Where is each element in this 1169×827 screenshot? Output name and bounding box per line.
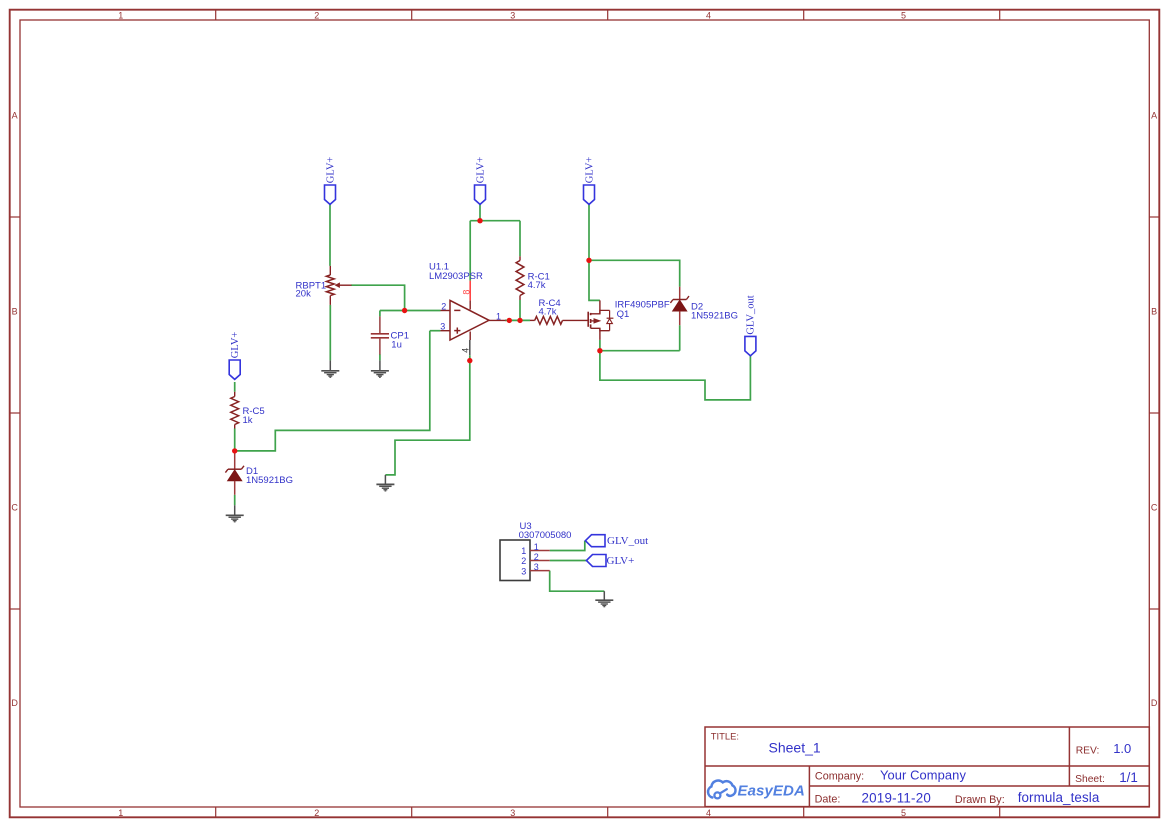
svg-text:1: 1: [521, 546, 526, 556]
svg-text:4: 4: [706, 11, 711, 21]
svg-text:1.0: 1.0: [1113, 741, 1131, 756]
svg-text:GLV_out: GLV_out: [607, 535, 648, 547]
svg-text:4.7k: 4.7k: [539, 307, 557, 318]
svg-text:3: 3: [521, 566, 526, 576]
svg-text:Sheet_1: Sheet_1: [769, 740, 821, 756]
svg-text:3: 3: [510, 808, 515, 818]
svg-text:Date:: Date:: [815, 794, 841, 806]
svg-text:D: D: [1151, 698, 1158, 708]
svg-text:5: 5: [901, 11, 906, 21]
svg-text:2: 2: [314, 11, 319, 21]
svg-text:1: 1: [534, 542, 539, 552]
svg-text:1/1: 1/1: [1119, 770, 1138, 785]
svg-text:2: 2: [314, 808, 319, 818]
svg-text:REV:: REV:: [1076, 746, 1100, 757]
svg-text:GLV+: GLV+: [230, 332, 241, 359]
svg-text:GLV+: GLV+: [475, 157, 486, 184]
svg-text:A: A: [12, 110, 18, 120]
svg-text:2: 2: [534, 552, 539, 562]
svg-text:1N5921BG: 1N5921BG: [691, 310, 738, 321]
svg-text:Your Company: Your Company: [880, 767, 966, 782]
svg-text:3: 3: [534, 562, 539, 572]
svg-text:Company:: Company:: [815, 770, 864, 782]
svg-text:C: C: [1151, 502, 1158, 512]
svg-text:LM2903PSR: LM2903PSR: [429, 271, 483, 282]
svg-text:2: 2: [521, 556, 526, 566]
svg-text:Q1: Q1: [617, 309, 630, 320]
svg-text:GLV+: GLV+: [607, 555, 635, 567]
svg-text:1: 1: [118, 808, 123, 818]
svg-text:20k: 20k: [296, 288, 312, 299]
svg-text:Drawn By:: Drawn By:: [955, 794, 1005, 806]
svg-text:B: B: [12, 307, 18, 317]
svg-text:D: D: [11, 698, 18, 708]
svg-text:0307005080: 0307005080: [519, 530, 572, 541]
svg-text:2019-11-20: 2019-11-20: [862, 790, 932, 805]
svg-text:EasyEDA: EasyEDA: [738, 782, 805, 799]
svg-text:1u: 1u: [391, 340, 402, 351]
svg-text:A: A: [1151, 110, 1157, 120]
svg-text:3: 3: [440, 322, 445, 332]
svg-text:3: 3: [510, 11, 515, 21]
svg-text:B: B: [1151, 307, 1157, 317]
svg-text:1k: 1k: [243, 415, 253, 426]
svg-text:4: 4: [706, 808, 711, 818]
svg-text:4: 4: [461, 348, 471, 353]
svg-text:Sheet:: Sheet:: [1075, 774, 1105, 785]
svg-text:C: C: [11, 502, 18, 512]
svg-text:4.7k: 4.7k: [528, 280, 546, 291]
svg-text:8: 8: [461, 290, 471, 295]
svg-text:5: 5: [901, 808, 906, 818]
svg-text:1: 1: [496, 312, 501, 322]
svg-text:GLV+: GLV+: [325, 157, 336, 184]
svg-text:1: 1: [118, 11, 123, 21]
svg-text:TITLE:: TITLE:: [711, 730, 739, 741]
svg-text:GLV+: GLV+: [584, 157, 595, 184]
svg-text:formula_tesla: formula_tesla: [1018, 790, 1100, 805]
svg-text:GLV_out: GLV_out: [746, 295, 757, 334]
svg-text:1N5921BG: 1N5921BG: [246, 475, 293, 486]
svg-text:2: 2: [441, 301, 446, 311]
